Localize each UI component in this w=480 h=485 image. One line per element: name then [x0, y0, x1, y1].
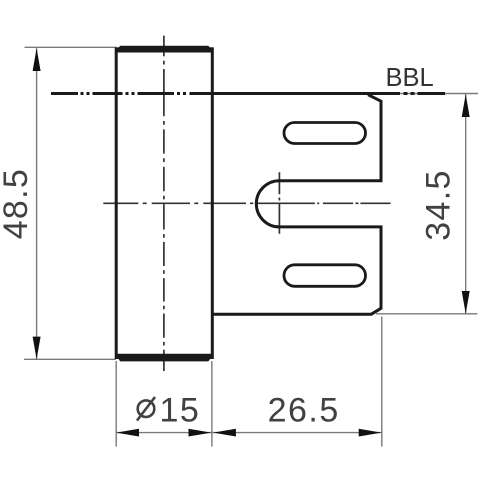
- arrow down 34.5: [462, 291, 470, 314]
- dimension line 48.5: [36, 48, 38, 359]
- extension line bottom of 48.5: [24, 358, 116, 360]
- svg-text:48.5: 48.5: [0, 168, 35, 239]
- arrow up 34.5: [462, 94, 470, 117]
- arrow left 26.5: [213, 429, 236, 437]
- dimension line 15 and 26.5: [116, 432, 381, 434]
- arrow right dia15: [189, 429, 212, 437]
- diameter symbol: [137, 397, 155, 421]
- arrow right 26.5: [359, 429, 382, 437]
- barrel top chamfer band: [115, 46, 214, 53]
- extension line left of diameter 15: [115, 361, 117, 447]
- svg-text:26.5: 26.5: [268, 391, 340, 429]
- centerline horizontal main: [103, 202, 390, 204]
- centerline vertical of slot arc: [278, 172, 280, 234]
- extension line shared 15/26.5: [211, 361, 213, 447]
- extension line right of 26.5: [381, 317, 383, 447]
- svg-text:BBL: BBL: [386, 64, 434, 92]
- BBL phantom line: [51, 92, 445, 95]
- hinge barrel outline: [116, 49, 212, 358]
- arrow down 48.5: [33, 337, 41, 360]
- svg-text:15: 15: [160, 391, 201, 429]
- extension line bottom of 34.5: [376, 313, 478, 315]
- barrel bottom chamfer band: [115, 354, 214, 362]
- arrow up 48.5: [33, 48, 41, 71]
- dimension line 34.5: [465, 94, 467, 314]
- arrow left dia15: [116, 429, 139, 437]
- slotted hole bottom: [284, 265, 366, 287]
- slotted hole top: [284, 123, 366, 144]
- mounting plate outline: [212, 95, 381, 315]
- extension line top of 48.5: [25, 46, 117, 48]
- centerline vertical of barrel: [163, 36, 165, 371]
- svg-text:34.5: 34.5: [420, 169, 458, 240]
- extension line top of 34.5: [381, 93, 478, 95]
